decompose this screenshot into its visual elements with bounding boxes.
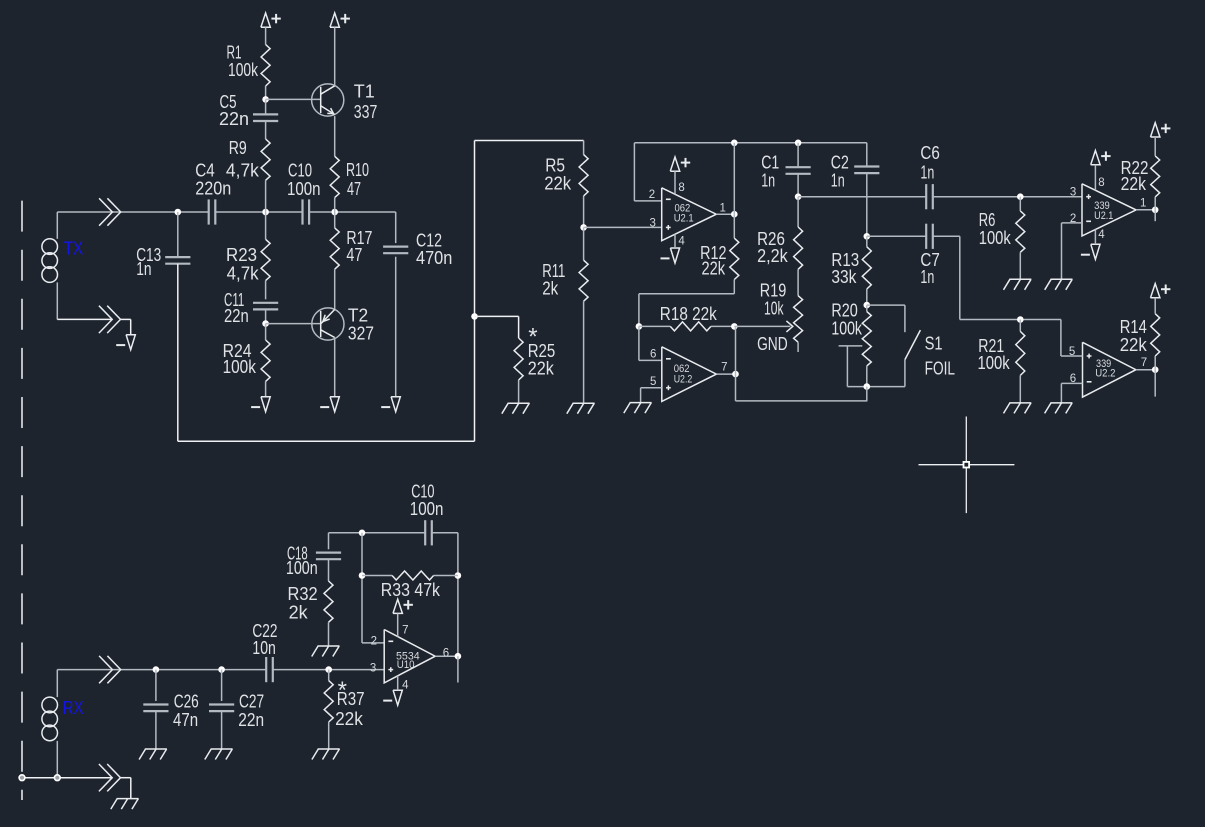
- pin 3 label U10: [370, 663, 376, 675]
- label R9: [229, 138, 247, 158]
- svg-text:4,7k: 4,7k: [226, 161, 260, 181]
- svg-text:10k: 10k: [764, 299, 784, 319]
- label T1: [354, 81, 375, 101]
- svg-text:C1: C1: [761, 153, 779, 173]
- wire R20 wiper: [839, 346, 905, 387]
- value C13 1n: [136, 259, 151, 279]
- node junction C26: [153, 666, 160, 673]
- ground U2.2 pin5: [624, 403, 652, 414]
- value R22 22k: [1121, 174, 1147, 194]
- transistor T1: [312, 84, 344, 116]
- capacitor C13: [165, 212, 190, 441]
- pin 5 label U2.2: [650, 376, 656, 388]
- svg-text:100k: 100k: [978, 353, 1011, 373]
- value C18 100n: [286, 558, 318, 578]
- power +V U10: [393, 599, 413, 636]
- value R9 4,7k: [226, 161, 260, 181]
- connector chevrons TX top: [99, 198, 121, 225]
- node junction R18 left: [636, 323, 643, 330]
- svg-text:R18 22k: R18 22k: [660, 304, 718, 324]
- wire bus C4-R9node: [215, 211, 303, 213]
- ground R6: [1004, 279, 1032, 290]
- wire U2.1 output: [716, 213, 734, 215]
- node junction R37: [325, 666, 332, 673]
- pin 8 label U2.1: [678, 182, 684, 194]
- op-amp U2.2 339 minus marker: [1087, 381, 1092, 383]
- svg-text:2: 2: [649, 189, 655, 201]
- value C10 100n: [287, 179, 321, 199]
- value R21 100k: [978, 353, 1011, 373]
- label T2: [348, 306, 368, 326]
- label R37: [337, 689, 365, 709]
- wire RX bottom corner: [130, 778, 132, 799]
- value C26 47n: [173, 710, 198, 730]
- capacitor C2: [854, 143, 879, 237]
- resistor R19 (trimmer): [794, 269, 803, 352]
- value R10 47: [347, 179, 361, 199]
- svg-text:R33 47k: R33 47k: [381, 580, 441, 600]
- svg-text:7: 7: [721, 361, 727, 373]
- resistor R20 (trimmer): [862, 305, 871, 387]
- capacitor C22: [266, 657, 273, 682]
- node junction C1 bottom: [795, 193, 802, 200]
- svg-text:337: 337: [354, 102, 378, 122]
- resistor R37: [324, 670, 333, 749]
- op-amp U10 plus marker: [388, 667, 393, 672]
- capacitor C4: [209, 199, 216, 224]
- ground R37: [312, 749, 340, 760]
- label R5: [545, 156, 565, 176]
- label C10 feedback: [411, 482, 434, 502]
- capacitor C7: [926, 224, 933, 249]
- svg-text:C4: C4: [195, 161, 215, 181]
- wire C12 top: [395, 212, 397, 243]
- svg-text:100n: 100n: [410, 499, 444, 519]
- svg-text:U10: U10: [397, 659, 415, 671]
- wire bus C10-R10node: [309, 211, 396, 213]
- value R20 100k: [831, 318, 862, 338]
- label R12: [700, 243, 726, 263]
- wire C7 to U2.2 339: [933, 236, 1061, 319]
- pin 2 label U2.1: [649, 189, 655, 201]
- op-amp U10 (5534): [384, 630, 435, 683]
- power +V R1: [261, 13, 281, 45]
- value C10 100n: [410, 499, 444, 519]
- node junction R14/output: [1152, 366, 1159, 373]
- pin 6 label U2.2: [650, 349, 656, 361]
- wire output 339 U2.2: [1136, 369, 1155, 371]
- node junction R5/R11/pin3: [580, 224, 587, 231]
- pin 6 label 339 U2.2: [1070, 373, 1076, 385]
- svg-text:4: 4: [402, 680, 409, 692]
- node junction C2/R13/C7: [864, 233, 871, 240]
- node junction R10/R17: [331, 209, 338, 216]
- capacitor C27: [209, 670, 234, 749]
- value R32 2k: [289, 603, 309, 623]
- power +V R22: [1151, 123, 1171, 156]
- label C4: [195, 161, 215, 181]
- wire pin3 U2.1: [584, 226, 662, 228]
- value R37 22k: [335, 709, 364, 729]
- wire pin5 U2.2: [641, 388, 662, 403]
- crosshair cursor: [919, 417, 1015, 514]
- value T1 337: [354, 102, 378, 122]
- svg-text:100n: 100n: [286, 558, 318, 578]
- label S1 FOIL: [925, 359, 955, 379]
- svg-text:2k: 2k: [289, 603, 309, 623]
- svg-text:R19: R19: [760, 281, 787, 301]
- value R17 47: [346, 245, 362, 265]
- label 062 U2.2: [674, 363, 693, 385]
- svg-text:2: 2: [371, 636, 377, 648]
- connector chevrons RX top: [99, 656, 121, 683]
- wire C1 to C6: [798, 196, 926, 198]
- capacitor C12: [383, 247, 408, 254]
- svg-text:470n: 470n: [416, 248, 452, 268]
- op-amp U2.1 (062): [662, 188, 717, 241]
- svg-text:T2: T2: [348, 306, 368, 326]
- svg-text:100k: 100k: [223, 357, 257, 377]
- negative supply -V U2.1 pin4: [661, 234, 680, 263]
- label 339 U2.2: [1095, 358, 1115, 379]
- resistor R33: [362, 571, 458, 580]
- svg-text:R23: R23: [226, 245, 257, 265]
- svg-text:47n: 47n: [173, 710, 198, 730]
- label R33 47k: [381, 580, 441, 600]
- label R25: [528, 341, 556, 361]
- capacitor C26: [143, 670, 168, 749]
- resistor R5: [579, 141, 588, 228]
- wire feedback bus: [634, 142, 866, 144]
- wire TX top: [57, 211, 209, 213]
- node junction U2.2 output: [732, 371, 739, 378]
- svg-text:22k: 22k: [528, 358, 555, 378]
- wire C12 bottom: [395, 257, 397, 397]
- svg-text:4,7k: 4,7k: [227, 263, 260, 283]
- svg-text:22k: 22k: [1121, 174, 1147, 194]
- pin 5 label 339 U2.2: [1069, 346, 1075, 358]
- label R1: [227, 43, 242, 63]
- inductor RX coil: [42, 670, 58, 778]
- svg-text:22k: 22k: [1120, 335, 1148, 355]
- label C1: [761, 153, 779, 173]
- value R19 10k: [764, 299, 784, 319]
- value C11 22n: [224, 306, 249, 326]
- svg-text:RX: RX: [63, 698, 84, 718]
- svg-text:C6: C6: [920, 143, 939, 163]
- label R25 asterisk: [528, 324, 537, 351]
- label R6: [979, 210, 996, 230]
- resistor R23: [261, 212, 270, 299]
- wire RX top: [57, 669, 266, 671]
- power +V T1: [330, 13, 350, 86]
- power +V R14: [1151, 284, 1171, 314]
- svg-text:47: 47: [347, 179, 361, 199]
- svg-text:R9: R9: [229, 138, 247, 158]
- node junction C11/R24/T2 base: [262, 320, 269, 327]
- node junction RX bottom left: [19, 775, 25, 781]
- svg-text:U2.2: U2.2: [1095, 367, 1115, 379]
- pin 6 label U10: [443, 647, 449, 659]
- svg-text:10n: 10n: [252, 638, 275, 658]
- capacitor C1: [786, 143, 811, 197]
- connector chevrons RX bottom: [99, 764, 121, 791]
- op-amp U2.2 339 plus marker: [1087, 354, 1092, 359]
- wire T1 emitter: [334, 116, 336, 156]
- label R13: [831, 250, 859, 270]
- svg-text:22k: 22k: [335, 709, 364, 729]
- wire R5 top: [475, 140, 584, 142]
- wire R20 bottom to output row: [866, 387, 868, 401]
- wire pin6 U2.2: [639, 326, 662, 360]
- negative supply -V TX: [116, 319, 135, 349]
- negative supply -V T2: [320, 397, 339, 412]
- negative supply -V R24: [251, 397, 270, 412]
- svg-text:1n: 1n: [831, 171, 845, 191]
- negative supply -V U10: [383, 676, 402, 705]
- resistor R1: [261, 45, 270, 100]
- svg-text:R20: R20: [831, 300, 857, 320]
- capacitor C10 (input): [303, 199, 310, 224]
- pin 1 label U2.1: [720, 203, 726, 215]
- wire U2.2 output riser: [735, 326, 737, 401]
- label C11: [224, 290, 244, 310]
- svg-text:6: 6: [443, 647, 449, 659]
- resistor R21: [1016, 320, 1025, 403]
- op-amp U2.2 minus marker: [666, 358, 671, 360]
- svg-text:22n: 22n: [219, 109, 249, 129]
- label 5534 U10: [396, 651, 420, 672]
- wire output 339 U2.1: [1136, 209, 1155, 211]
- resistor R12: [730, 238, 739, 294]
- svg-text:GND: GND: [757, 334, 788, 354]
- resistor R25: [514, 338, 523, 403]
- svg-text:100n: 100n: [287, 179, 321, 199]
- node junction R9/R23: [262, 209, 269, 216]
- resistor R24: [261, 324, 270, 397]
- svg-text:1n: 1n: [761, 171, 775, 191]
- node junction TX/C13/C4: [175, 209, 182, 216]
- svg-text:22n: 22n: [238, 710, 264, 730]
- svg-text:3: 3: [370, 663, 376, 675]
- value R13 33k: [831, 267, 857, 287]
- value C7 1n: [920, 267, 934, 287]
- dashed boundary line: [21, 201, 23, 800]
- op-amp U2.1 339 minus marker: [1086, 220, 1091, 222]
- svg-text:1: 1: [1140, 198, 1146, 210]
- value R25 22k: [528, 358, 555, 378]
- wire pin2 339 U2.1: [1062, 223, 1083, 279]
- value C1 1n: [761, 171, 775, 191]
- wire output to R20: [736, 400, 868, 402]
- op-amp U2.1 339 plus marker: [1086, 194, 1091, 199]
- svg-text:R32: R32: [288, 584, 318, 604]
- capacitor C5: [253, 99, 278, 139]
- svg-text:C10: C10: [288, 161, 312, 181]
- svg-text:C2: C2: [831, 153, 849, 173]
- node junction bus/output: [731, 140, 738, 147]
- pin 7 label U2.2: [721, 361, 727, 373]
- label C5: [220, 92, 237, 112]
- resistor R13: [862, 236, 871, 305]
- wire pin5 339 U2.2: [1061, 320, 1083, 357]
- op-amp U2.1 plus marker: [666, 225, 671, 230]
- connector chevrons TX bottom: [99, 306, 121, 333]
- switch S1: [867, 305, 921, 387]
- op-amp U2.1 minus marker: [666, 198, 671, 200]
- op-amp U2.2 plus marker: [666, 385, 671, 390]
- label GND: [757, 334, 788, 354]
- svg-text:T1: T1: [354, 81, 375, 101]
- svg-text:R10: R10: [346, 160, 369, 180]
- label C13: [136, 245, 161, 265]
- node junction bus/C1: [795, 140, 802, 147]
- svg-text:3: 3: [650, 218, 656, 230]
- resistor R11: [579, 227, 588, 403]
- svg-text:6: 6: [650, 349, 656, 361]
- transistor T2: [312, 308, 344, 340]
- label TX: [64, 239, 83, 259]
- wire C2 to C7: [867, 235, 926, 237]
- node junction R20 bottom: [864, 383, 871, 390]
- wire R18 to R19 wiper: [734, 325, 790, 327]
- resistor R6: [1016, 197, 1025, 280]
- power +V U2.1: [670, 157, 690, 194]
- svg-text:1n: 1n: [920, 163, 934, 183]
- svg-text:R37: R37: [337, 689, 365, 709]
- ground RX shield: [111, 799, 139, 810]
- op-amp U2.2 (339): [1083, 342, 1136, 397]
- svg-text:100k: 100k: [228, 60, 259, 80]
- wire feedback risers: [362, 533, 458, 657]
- wire left riser: [474, 141, 476, 442]
- ground C26: [139, 749, 167, 760]
- label C7: [920, 250, 939, 270]
- label R21: [978, 336, 1004, 356]
- svg-text:7: 7: [1141, 357, 1147, 369]
- wire U2.1 feedback left: [634, 143, 661, 201]
- pin 7 label 339 U2.2: [1141, 357, 1147, 369]
- pin 4 label U10: [402, 680, 409, 692]
- resistor R26: [794, 197, 803, 270]
- svg-text:C27: C27: [239, 691, 264, 711]
- wire output riser: [733, 143, 735, 238]
- label R26: [757, 229, 785, 249]
- svg-text:3: 3: [1070, 186, 1076, 198]
- negative supply -V C12: [381, 397, 400, 412]
- value T2 327: [348, 324, 374, 344]
- pin 3 label U2.1: [650, 218, 656, 230]
- node junction output/R12: [731, 211, 738, 218]
- svg-text:2,2k: 2,2k: [757, 246, 788, 266]
- svg-text:100k: 100k: [831, 318, 862, 338]
- op-amp U2.2 (062): [662, 347, 717, 402]
- label R10: [346, 160, 369, 180]
- label R32: [288, 584, 318, 604]
- wire output stub down 2: [1154, 370, 1156, 397]
- ground R21: [1004, 403, 1032, 414]
- label R11: [542, 261, 565, 281]
- resistor R17: [330, 212, 339, 310]
- value R26 2,2k: [757, 246, 788, 266]
- svg-text:22n: 22n: [224, 306, 249, 326]
- svg-text:U2.1: U2.1: [1094, 210, 1113, 222]
- node junction C27: [218, 666, 225, 673]
- value C5 22n: [219, 109, 249, 129]
- svg-text:100k: 100k: [979, 228, 1012, 248]
- label C10 input: [288, 161, 312, 181]
- value R1 100k: [228, 60, 259, 80]
- value C4 220n: [195, 179, 231, 199]
- pin 3 label 339 U2.1: [1070, 186, 1076, 198]
- value C6 1n: [920, 163, 934, 183]
- resistor R14: [1151, 314, 1160, 370]
- negative supply -V 339 U2.1: [1081, 229, 1100, 259]
- wire U2.2 output: [716, 373, 735, 375]
- svg-text:TX: TX: [64, 239, 83, 259]
- svg-text:2k: 2k: [542, 279, 559, 299]
- svg-text:8: 8: [678, 182, 684, 194]
- ground 339 U2.2 pin6: [1045, 403, 1073, 414]
- wire output stub down: [1154, 210, 1156, 221]
- wire RX bottom: [22, 777, 131, 779]
- wire R25 branch: [475, 316, 519, 338]
- svg-text:1n: 1n: [136, 259, 151, 279]
- node junction R1/C5/T1 base: [262, 96, 269, 103]
- capacitor C10 (feedback): [425, 520, 432, 545]
- power +V 339 U2.1: [1091, 151, 1111, 191]
- node junction R33 left: [359, 572, 366, 579]
- node junction R6 top: [1017, 193, 1024, 200]
- svg-text:C26: C26: [174, 691, 199, 711]
- ground C27: [205, 749, 233, 760]
- svg-text:22k: 22k: [702, 258, 726, 278]
- label R18 22k: [660, 304, 718, 324]
- label R37 asterisk: [338, 677, 347, 704]
- capacitor C11: [253, 303, 278, 324]
- svg-text:4: 4: [678, 236, 685, 248]
- label C22: [252, 621, 277, 641]
- ground R11: [567, 403, 595, 414]
- svg-text:220n: 220n: [195, 179, 231, 199]
- wire pin2 U10: [362, 642, 384, 644]
- svg-text:8: 8: [1098, 177, 1104, 189]
- wire C22 to pin3: [273, 669, 384, 671]
- svg-text:22k: 22k: [544, 173, 572, 193]
- resistor R22: [1151, 156, 1160, 210]
- ground R25: [502, 403, 530, 414]
- node junction R18 right: [731, 323, 738, 330]
- label R22: [1121, 158, 1149, 178]
- wire C13 bottom bus: [178, 440, 475, 442]
- label S1: [925, 334, 943, 354]
- value R12 22k: [702, 258, 726, 278]
- svg-text:1: 1: [720, 203, 726, 215]
- wire U10 output: [435, 655, 458, 657]
- capacitor C18: [316, 533, 341, 581]
- svg-text:1n: 1n: [920, 267, 934, 287]
- svg-text:S1: S1: [925, 334, 943, 354]
- value R24 100k: [223, 357, 257, 377]
- node junction U10 output: [455, 653, 462, 660]
- label C2: [831, 153, 849, 173]
- svg-text:7: 7: [402, 624, 408, 636]
- label C6: [920, 143, 939, 163]
- label R17: [346, 228, 372, 248]
- value C12 470n: [416, 248, 452, 268]
- svg-text:U2.2: U2.2: [674, 373, 693, 385]
- wire T1 base: [266, 98, 321, 100]
